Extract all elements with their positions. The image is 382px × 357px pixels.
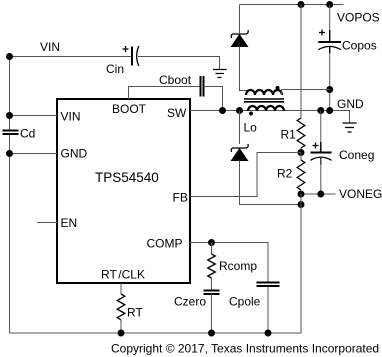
node: R1/R2 feedback junction: [298, 149, 305, 156]
svg-text:BOOT: BOOT: [112, 102, 147, 116]
svg-text:Cin: Cin: [106, 62, 124, 76]
wire: VIN pin stub: [10, 115, 58, 117]
node: SW junction: [236, 107, 243, 114]
node: GND line Coneg junction: [317, 107, 324, 114]
node: Cpole bottom junction: [265, 330, 272, 337]
wire: COMP line: [190, 243, 268, 283]
svg-text:RT: RT: [127, 306, 143, 320]
svg-text:VIN: VIN: [40, 40, 60, 54]
wire: VIN top line: [10, 56, 132, 58]
node: Copos bottom / secondary right junction: [326, 86, 333, 93]
svg-text:COMP: COMP: [147, 237, 183, 251]
wire: VONEG to bottom rail: [300, 194, 302, 333]
wire: secondary right end to Copos node: [282, 90, 330, 96]
resistor Rcomp: [208, 243, 216, 291]
svg-text:TPS54540: TPS54540: [95, 170, 159, 185]
wire: left VIN rail: [9, 57, 11, 131]
capacitor Czero: [204, 291, 220, 334]
core lines: [244, 99, 284, 102]
svg-text:FB: FB: [173, 191, 188, 205]
resistor R1: [297, 5, 305, 153]
node: Czero bottom junction: [208, 330, 215, 337]
wire: D1 anode down to primary left end: [240, 47, 247, 96]
diode D1 (top schottky): [231, 30, 248, 47]
inductor Lo primary winding: [248, 106, 284, 116]
svg-text:GND: GND: [61, 147, 88, 161]
svg-text:Copyright © 2017, Texas Instru: Copyright © 2017, Texas Instruments Inco…: [111, 342, 379, 356]
svg-text:Lo: Lo: [244, 121, 258, 135]
node: GND pin dot: [6, 150, 13, 157]
node: VIN pin dot: [6, 112, 13, 119]
node: RT bottom junction: [118, 330, 125, 337]
svg-text:Cd: Cd: [20, 127, 35, 141]
svg-text:SW: SW: [167, 106, 187, 120]
svg-text:Cboot: Cboot: [159, 73, 192, 87]
wire: left rail below Cd to bottom rail: [9, 134, 11, 333]
capacitor Copos: [318, 5, 341, 111]
wire: EN pin stub: [37, 222, 57, 224]
svg-text:GND: GND: [337, 97, 364, 111]
svg-text:Coneg: Coneg: [339, 148, 374, 162]
svg-text:Copos: Copos: [342, 39, 377, 53]
capacitor Coneg: [311, 111, 332, 195]
node: GND line Copos junction: [326, 107, 333, 114]
svg-text:Rcomp: Rcomp: [219, 259, 257, 273]
resistor RT: [117, 294, 125, 333]
svg-text:R2: R2: [277, 167, 293, 181]
wire: VIN line from Cin to ground: [138, 57, 220, 70]
svg-text:Cpole: Cpole: [229, 295, 261, 309]
wire: VOPOS top rail: [240, 4, 344, 6]
capacitor Cin: [123, 46, 139, 66]
ground (output GND): [343, 123, 357, 132]
svg-text:VOPOS: VOPOS: [337, 11, 380, 25]
wire: RT/CLK pin stub: [120, 283, 122, 294]
svg-text:VONEG: VONEG: [339, 187, 382, 201]
svg-text:Czero: Czero: [174, 295, 206, 309]
capacitor Cboot: [201, 76, 204, 97]
capacitor Cd: [3, 131, 19, 135]
wire: BOOT pin stub: [129, 87, 201, 100]
wire: D1 cathode up to VOPOS rail: [239, 5, 241, 35]
diode D2 (catch schottky): [231, 111, 301, 205]
wire: bottom rail: [10, 332, 302, 334]
node: COMP junction: [208, 239, 215, 246]
node: VONEG Coneg junction: [317, 191, 324, 198]
node: top rail Copos junction: [326, 1, 333, 8]
wire: FB network: [190, 153, 301, 197]
resistor R2: [297, 153, 305, 191]
node: top rail R1 junction: [298, 1, 305, 8]
inductor Lo coupled: secondary winding: [246, 86, 282, 95]
wire: Cboot to SW node: [204, 87, 223, 111]
node: VIN input dot: [6, 53, 13, 60]
wire: SW line to GND symbol: [190, 111, 350, 124]
ground (input): [213, 70, 227, 78]
svg-text:EN: EN: [61, 216, 78, 230]
node: Cboot junction: [219, 107, 226, 114]
capacitor Cpole: [257, 283, 280, 334]
IC U1 TPS54540: [57, 99, 190, 283]
wire: VONEG line: [301, 193, 336, 195]
svg-text:R1: R1: [281, 128, 297, 142]
wire: GND pin stub: [10, 153, 58, 155]
svg-text:VIN: VIN: [61, 110, 81, 124]
svg-text:RT/CLK: RT/CLK: [101, 268, 145, 282]
node: VONEG R2 junction: [298, 191, 305, 198]
node: D2 anode junction: [298, 201, 305, 208]
